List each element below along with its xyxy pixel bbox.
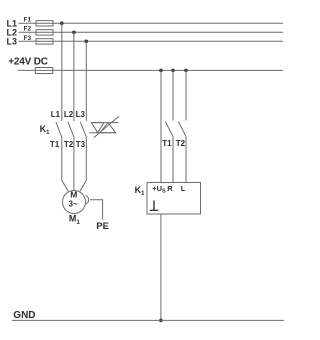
svg-text:3~: 3~ [69, 200, 78, 209]
svg-text:F3: F3 [24, 35, 32, 42]
wire L1 rail [19, 22, 284, 24]
fuse F1 [36, 21, 53, 26]
contact T1 blade [165, 122, 173, 137]
node +24V tap junction b [171, 69, 175, 73]
wire L3 rail [19, 40, 284, 42]
wire motor feed 1 [62, 137, 68, 191]
svg-text:L3: L3 [76, 110, 86, 119]
fuse F2 [36, 30, 53, 35]
svg-text:M1: M1 [69, 214, 81, 227]
svg-text:M: M [70, 190, 77, 200]
svg-text:T1: T1 [162, 139, 172, 148]
wire phase 3 drop from L3 to contactor [85, 41, 87, 121]
node L2 tap junction [72, 31, 76, 35]
node +24V tap junction c [184, 69, 188, 73]
wire PE [90, 200, 103, 220]
wire GND rail [12, 319, 284, 321]
wire L2 rail [19, 31, 284, 33]
PE pigtail arc on motor [86, 196, 89, 204]
wire motor feed 2 [73, 137, 75, 191]
svg-text:PE: PE [96, 221, 109, 232]
svg-text:R: R [167, 184, 173, 193]
node GND junction [159, 319, 163, 323]
wire relay ground output to GND [160, 214, 162, 320]
motor M1 circle [63, 191, 86, 214]
svg-text:F1: F1 [24, 17, 32, 24]
svg-text:L2: L2 [64, 110, 74, 119]
wire contact T2 lower to box [185, 137, 187, 183]
svg-text:L1: L1 [51, 110, 61, 119]
svg-text:T2: T2 [64, 140, 74, 149]
node L3 tap junction [85, 40, 89, 44]
fuse F3 [36, 39, 53, 44]
fuse F4 (24V supply fuse) [35, 68, 53, 74]
wire contact T1 upper [172, 70, 174, 120]
wire contact T1 lower to box [172, 137, 174, 183]
svg-text:+24V DC: +24V DC [8, 57, 47, 68]
thyristor/softstart symbol (antiparallel triacs with slash) [90, 117, 120, 138]
svg-text:L3: L3 [7, 37, 18, 47]
svg-text:F2: F2 [24, 26, 32, 33]
node +24V tap junction a [159, 69, 163, 73]
node L1 tap junction [60, 21, 64, 25]
svg-text:GND: GND [13, 310, 35, 321]
svg-text:+US: +US [152, 184, 166, 195]
svg-text:K1: K1 [135, 185, 146, 197]
svg-text:T1: T1 [50, 140, 60, 149]
contactor K1 contact pole 3 (blade) [80, 122, 86, 137]
contactor K1 contact pole 2 (blade) [68, 122, 74, 137]
ground symbol inside relay box [150, 201, 158, 211]
svg-text:T3: T3 [76, 140, 86, 149]
svg-text:K1: K1 [40, 124, 51, 136]
relay box K1 outline [147, 183, 201, 215]
wire +Us drop from +24V to relay box [160, 70, 162, 182]
contact T2 blade [178, 122, 186, 137]
contactor K1 contact pole 1 (blade) [56, 122, 62, 137]
wire phase 1 drop from L1 to contactor [61, 23, 63, 121]
wire phase 2 drop from L2 to contactor [73, 32, 75, 121]
wire contact T2 upper [185, 70, 187, 120]
wire motor feed 3 [80, 137, 86, 191]
svg-text:T2: T2 [176, 139, 186, 148]
svg-text:L: L [181, 184, 186, 193]
wire +24V DC rail [18, 69, 283, 71]
